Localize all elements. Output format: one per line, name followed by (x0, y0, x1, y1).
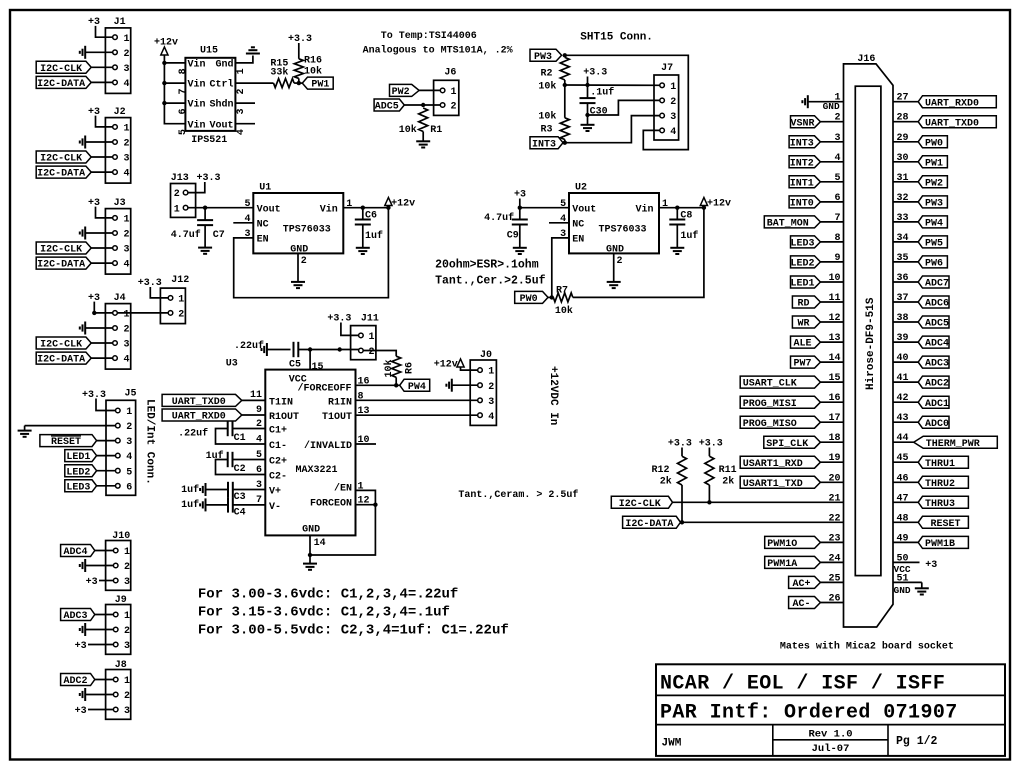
svg-text:LED/Int Conn.: LED/Int Conn. (144, 399, 156, 485)
J16 pin 37 net label ADC6 (893, 293, 949, 310)
svg-text:1: 1 (124, 547, 130, 558)
svg-text:1: 1 (126, 407, 132, 418)
svg-text:10: 10 (828, 273, 840, 284)
svg-text:+12v: +12v (434, 360, 458, 371)
svg-text:1uf: 1uf (181, 484, 199, 496)
regulator U15 IPS521 (178, 46, 247, 146)
svg-text:For 3.00-3.6vdc: C1,2,3,4=.22u: For 3.00-3.6vdc: C1,2,3,4=.22uf (198, 587, 458, 603)
svg-text:2: 2 (178, 310, 184, 321)
svg-text:1: 1 (174, 204, 180, 215)
svg-text:2: 2 (126, 422, 132, 433)
stub U15 Shdn pin 3 (235, 102, 255, 104)
net label ADC4 at J10 (61, 545, 114, 559)
svg-text:2: 2 (451, 102, 457, 113)
connector J8 (106, 660, 131, 719)
pin 14 ground at U3 GND (303, 535, 326, 569)
net label ADC2 at J8 (61, 674, 114, 688)
svg-text:+3: +3 (86, 577, 98, 588)
regulator U1 TPS76033 (244, 182, 352, 255)
svg-text:PWM1O: PWM1O (767, 539, 797, 550)
+3.3 label J5 (82, 390, 116, 411)
svg-text:J9: J9 (115, 595, 127, 606)
J16 pin 34 net label PW5 (893, 233, 947, 250)
svg-text:33k: 33k (270, 67, 288, 79)
svg-text:USART_CLK: USART_CLK (743, 379, 797, 390)
net label PW2 (390, 84, 441, 98)
connector J2 (105, 107, 130, 183)
J16 pin 2 net label VSNR (790, 113, 843, 130)
+3 wire at J9 pin 3 (75, 641, 114, 652)
ground at J2 pin 2 (80, 136, 113, 149)
net label PW1 (302, 77, 333, 89)
svg-text:I2C-DATA: I2C-DATA (37, 79, 85, 90)
svg-text:2: 2 (124, 626, 130, 637)
J16 pin 3 net label INT3 (789, 133, 843, 150)
svg-text:36: 36 (897, 273, 909, 284)
net label ADC3 at J9 (61, 609, 114, 623)
svg-text:SPI_CLK: SPI_CLK (766, 439, 808, 450)
net label I2C-CLK at J2 (36, 151, 113, 165)
svg-text:T1IN: T1IN (269, 397, 293, 408)
svg-text:R3: R3 (541, 125, 553, 136)
wire U15 Ctrl to R15 (235, 82, 273, 84)
svg-text:NCAR / EOL / ISF / ISFF: NCAR / EOL / ISF / ISFF (660, 673, 945, 696)
svg-text:UART_RXD0: UART_RXD0 (925, 98, 979, 109)
svg-text:.22uf: .22uf (178, 428, 208, 440)
net label LED3 (65, 480, 116, 494)
svg-text:26: 26 (828, 594, 840, 605)
capacitor C30 .1uf (580, 85, 615, 125)
ground at U15 Gnd pin (235, 47, 260, 63)
svg-text:I2C-DATA: I2C-DATA (37, 169, 85, 180)
wire INT3 to J7 pin 3 (565, 116, 660, 143)
svg-text:ADC4: ADC4 (925, 339, 949, 350)
svg-text:PW6: PW6 (925, 259, 943, 270)
ground at J10 pin 2 (80, 559, 114, 572)
J16 pin 13 net label ALE (791, 333, 844, 350)
svg-text:42: 42 (897, 393, 909, 404)
J16 pin 27 net label UART_RXD0 (893, 93, 996, 110)
svg-text:ALE: ALE (793, 339, 811, 350)
svg-text:1: 1 (670, 82, 676, 93)
capacitor C2 1uf at U3 pins 5/6 (206, 450, 266, 476)
svg-text:Vin: Vin (635, 203, 653, 215)
+3.3 at SHT15 node (583, 68, 607, 88)
svg-text:8: 8 (358, 391, 364, 402)
J16 pin 33 net label PW4 (893, 213, 947, 230)
J16 pin 48 net label RESET (893, 513, 968, 530)
connector J6 (434, 68, 459, 116)
svg-text:20: 20 (828, 473, 840, 484)
svg-text:PWM1A: PWM1A (767, 559, 797, 570)
J16 pin 9 net label LED2 (790, 253, 843, 270)
svg-text:INT0: INT0 (790, 199, 814, 210)
svg-text:Mates with Mica2 board socket: Mates with Mica2 board socket (780, 641, 954, 653)
svg-text:3: 3 (236, 108, 247, 114)
J16 pin 30 net label PW1 (893, 153, 947, 170)
ground at U2 GND pin 2 (607, 253, 623, 288)
svg-text:J10: J10 (112, 531, 130, 542)
svg-text:R1OUT: R1OUT (269, 412, 299, 423)
connector J13 (171, 173, 196, 217)
svg-text:4: 4 (124, 355, 130, 366)
svg-text:Vout: Vout (572, 204, 596, 215)
svg-text:1: 1 (124, 310, 130, 321)
connector J11 (351, 314, 379, 360)
J16 pin 4 net label INT2 (789, 153, 843, 170)
svg-text:+3: +3 (88, 107, 100, 118)
svg-text:2: 2 (236, 88, 247, 94)
resistor R11 2k pullup I2C-CLK (699, 439, 737, 503)
svg-text:UART_RXD0: UART_RXD0 (172, 412, 226, 423)
svg-text:+3: +3 (88, 17, 100, 28)
svg-text:18: 18 (828, 433, 840, 444)
J16 pin 25 net label AC+ (789, 573, 844, 590)
svg-text:14: 14 (314, 538, 326, 549)
svg-text:AC+: AC+ (792, 579, 810, 590)
capacitor C1 .22uf at U3 pins 2/4 (178, 419, 265, 446)
svg-text:3: 3 (488, 397, 494, 408)
svg-text:1: 1 (178, 295, 184, 306)
net label I2C-DATA at J1 (36, 76, 113, 90)
svg-text:R1IN: R1IN (328, 397, 352, 408)
svg-text:J1: J1 (114, 17, 126, 28)
+12v arrow at U2 (700, 198, 731, 210)
wire R7 to +12v (573, 208, 704, 298)
svg-text:For 3.00-5.5vdc: C2,3,4=1uf:: For 3.00-5.5vdc: C2,3,4=1uf: C1=.22uf (198, 622, 509, 638)
net label LED1 (65, 450, 116, 464)
svg-text:3: 3 (256, 480, 262, 491)
svg-text:10k: 10k (538, 111, 556, 123)
svg-text:7: 7 (256, 495, 262, 506)
+3.3 label J12 (138, 278, 168, 298)
svg-text:U3: U3 (226, 358, 238, 369)
svg-text:4: 4 (488, 412, 494, 423)
svg-text:1: 1 (369, 332, 375, 343)
svg-text:3: 3 (124, 245, 130, 256)
J16 pin 51 GND (893, 573, 929, 596)
svg-text:PW2: PW2 (392, 87, 410, 98)
net label PW0 (515, 291, 548, 303)
svg-text:/EN: /EN (334, 483, 352, 495)
svg-text:LED3: LED3 (66, 482, 90, 493)
ground wire J5 pin 2 (18, 426, 116, 437)
svg-text:21: 21 (828, 493, 840, 504)
svg-text:3: 3 (124, 64, 130, 75)
svg-text:38: 38 (897, 313, 909, 324)
J16 pin 50 VCC +3 (893, 553, 937, 575)
VCC rail with C5 (234, 340, 359, 371)
svg-text:4: 4 (124, 260, 130, 271)
svg-text:4: 4 (670, 127, 676, 138)
svg-text:J3: J3 (114, 198, 126, 209)
svg-text:16: 16 (358, 376, 370, 387)
J16 pin 47 net label THRU3 (893, 493, 968, 510)
svg-text:4: 4 (124, 169, 130, 180)
svg-text:ADC5: ADC5 (925, 319, 949, 330)
svg-text:UART_TXD0: UART_TXD0 (172, 397, 226, 408)
svg-text:9: 9 (256, 405, 262, 416)
capacitor C6 1uf (355, 208, 383, 248)
svg-text:I2C-CLK: I2C-CLK (40, 64, 82, 75)
svg-text:U15: U15 (200, 46, 218, 57)
svg-text:1: 1 (488, 367, 494, 378)
svg-text:PAR Intf: Ordered 071907: PAR Intf: Ordered 071907 (660, 702, 958, 725)
svg-text:2: 2 (124, 230, 130, 241)
J16 pin 36 net label ADC7 (893, 273, 949, 290)
+3 label J1 (88, 17, 113, 37)
J16 pin 40 net label ADC3 (893, 353, 949, 370)
wire U2 Vin to +12v (659, 206, 706, 210)
svg-text:PW1: PW1 (311, 80, 329, 91)
svg-text:14: 14 (828, 353, 840, 364)
svg-text:PW4: PW4 (925, 219, 943, 230)
svg-text:5: 5 (256, 450, 262, 461)
svg-text:1uf: 1uf (181, 499, 199, 511)
svg-text:7: 7 (178, 88, 189, 94)
wire J7 pin 2 to C30 ground (588, 100, 660, 115)
svg-text:+3: +3 (88, 198, 100, 209)
+3 wire at J8 pin 3 (75, 706, 114, 717)
IC U3 MAX3221 (226, 358, 356, 535)
J16 pin 15 net label USART_CLK (740, 373, 843, 390)
svg-text:15: 15 (828, 373, 840, 384)
pin 12 wire U3 FORCEON to ground loop (310, 496, 378, 555)
svg-text:2k: 2k (660, 476, 672, 488)
svg-text:Hirose-DF9-51S: Hirose-DF9-51S (865, 297, 877, 390)
svg-text:U2: U2 (575, 182, 587, 193)
svg-text:22: 22 (828, 513, 840, 524)
svg-text:EN: EN (257, 235, 269, 246)
svg-text:TPS76033: TPS76033 (599, 225, 647, 236)
svg-text:LED2: LED2 (66, 467, 90, 478)
svg-text:10k: 10k (538, 81, 556, 93)
svg-text:.1uf: .1uf (590, 87, 614, 99)
svg-text:I2C-DATA: I2C-DATA (625, 519, 673, 530)
svg-text:LED2: LED2 (790, 259, 814, 270)
svg-text:I2C-CLK: I2C-CLK (40, 154, 82, 165)
svg-text:T1OUT: T1OUT (322, 412, 352, 423)
svg-text:10k: 10k (304, 65, 322, 77)
wire J4 pin 1 to J12 pin 2 (117, 312, 168, 314)
svg-text:4: 4 (126, 452, 132, 463)
svg-text:TPS76033: TPS76033 (283, 225, 331, 236)
svg-text:23: 23 (828, 533, 840, 544)
svg-text:C2: C2 (234, 464, 246, 475)
svg-text:R2: R2 (541, 68, 553, 79)
stub U2 NC pin 4 (549, 222, 569, 224)
ground at J3 pin 2 (80, 227, 113, 240)
svg-text:C7: C7 (213, 230, 225, 241)
J16 pin 46 net label THRU2 (893, 473, 968, 490)
svg-text:5: 5 (244, 199, 250, 210)
svg-text:32: 32 (897, 193, 909, 204)
svg-text:MAX3221: MAX3221 (295, 465, 337, 476)
svg-text:30: 30 (897, 153, 909, 164)
svg-text:PROG_MISI: PROG_MISI (743, 399, 797, 410)
J16 pin 32 net label PW3 (893, 193, 947, 210)
+12v arrow at J0 pin 1 (434, 359, 478, 371)
svg-text:1uf: 1uf (206, 450, 224, 462)
ground at U1 GND pin 2 (291, 253, 307, 288)
svg-text:USART1_TXD: USART1_TXD (743, 479, 803, 490)
svg-text:I2C-DATA: I2C-DATA (37, 260, 85, 271)
capacitor C3 1uf at U3 pin 3 (181, 480, 265, 503)
svg-text:C2-: C2- (269, 472, 287, 483)
J16 pin 31 net label PW2 (893, 173, 947, 190)
svg-text:2: 2 (124, 325, 130, 336)
svg-text:VSNR: VSNR (790, 118, 814, 129)
svg-text:+12v: +12v (391, 198, 415, 209)
svg-text:1: 1 (124, 611, 130, 622)
svg-text:J2: J2 (114, 107, 126, 118)
svg-text:SHT15 Conn.: SHT15 Conn. (580, 32, 653, 44)
pin 8 wire U3 R1IN to J0 pin 3 (356, 391, 478, 402)
svg-text:ADC3: ADC3 (63, 611, 87, 622)
+3.3 at J13 pin 2 (188, 173, 221, 193)
svg-text:Vin: Vin (188, 119, 206, 131)
svg-text:+3.3: +3.3 (197, 173, 221, 184)
svg-text:11: 11 (828, 293, 840, 304)
svg-text:LED3: LED3 (790, 239, 814, 250)
svg-text:2: 2 (488, 382, 494, 393)
svg-text:2: 2 (670, 97, 676, 108)
svg-text:INT2: INT2 (790, 158, 814, 169)
svg-text:V+: V+ (269, 487, 281, 498)
svg-text:2k: 2k (722, 476, 734, 488)
resistor R16 10k (288, 34, 322, 83)
svg-text:ADC0: ADC0 (925, 419, 949, 430)
J16 pin 38 net label ADC5 (893, 313, 949, 330)
J16 pin 49 net label PWM1B (893, 533, 968, 550)
capacitor C9 4.7uf (484, 208, 528, 248)
svg-text:Jul-07: Jul-07 (812, 743, 850, 755)
svg-text:C1: C1 (234, 433, 246, 444)
svg-text:GND: GND (302, 525, 320, 536)
svg-text:12: 12 (828, 313, 840, 324)
svg-text:EN: EN (572, 235, 584, 246)
connector J16 inner body Hirose-DF9-51S (855, 86, 881, 575)
svg-text:PROG_MISO: PROG_MISO (743, 419, 797, 430)
+3 label J4 (88, 293, 113, 315)
+3.3 at J11 pin 1 (327, 314, 358, 336)
svg-text:R11: R11 (719, 465, 737, 476)
svg-text:2: 2 (301, 256, 307, 267)
svg-text:2: 2 (834, 113, 840, 124)
net label RESET at J5 (40, 435, 116, 449)
J16 pin 14 net label PW7 (791, 353, 844, 370)
svg-text:Rev 1.0: Rev 1.0 (808, 729, 852, 741)
svg-text:10k: 10k (555, 305, 573, 317)
J16 pin 42 net label ADC1 (893, 393, 949, 410)
svg-text:C3: C3 (234, 492, 246, 503)
svg-text:46: 46 (897, 473, 909, 484)
svg-text:C9: C9 (507, 231, 519, 242)
J16 pin 39 net label ADC4 (893, 333, 949, 350)
net label INT3 (530, 137, 567, 151)
ground below R1 (416, 140, 430, 142)
connector J5 (106, 389, 137, 496)
svg-text:PWM1B: PWM1B (925, 539, 955, 550)
connector J16 outline (844, 54, 894, 627)
svg-text:20ohm>ESR>.1ohm: 20ohm>ESR>.1ohm (435, 258, 539, 271)
svg-text:J11: J11 (361, 314, 379, 325)
J16 pin 7 net label BAT_MON (764, 213, 843, 230)
svg-text:28: 28 (897, 113, 909, 124)
svg-text:51: 51 (897, 573, 909, 584)
svg-text:2: 2 (256, 419, 262, 430)
svg-text:+3: +3 (925, 560, 937, 571)
net label LED2 (65, 465, 116, 479)
ground at J1 pin 2 (80, 46, 113, 59)
J16 pin 44 net label THERM_PWR (893, 433, 997, 450)
svg-text:RD: RD (797, 299, 809, 310)
svg-text:24: 24 (828, 553, 840, 564)
svg-text:2: 2 (124, 49, 130, 60)
net label PW4 (400, 379, 430, 391)
svg-text:J7: J7 (661, 63, 673, 74)
svg-text:2: 2 (369, 347, 375, 358)
svg-text:Tant.,Cer.>2.5uf: Tant.,Cer.>2.5uf (435, 274, 546, 287)
J16 pin 18 net label SPI_CLK (764, 433, 844, 450)
svg-text:ADC1: ADC1 (925, 399, 949, 410)
svg-text:4.7uf: 4.7uf (171, 229, 201, 241)
J16 pin 43 net label ADC0 (893, 413, 949, 430)
svg-text:31: 31 (897, 173, 909, 184)
svg-text:3: 3 (670, 112, 676, 123)
net label I2C-DATA at J4 (36, 352, 113, 366)
svg-text:1: 1 (124, 124, 130, 135)
svg-text:8: 8 (178, 68, 189, 74)
svg-text:PW3: PW3 (925, 199, 943, 210)
svg-text:3: 3 (124, 340, 130, 351)
J16 pin 20 net label USART1_TXD (740, 473, 843, 490)
svg-text:29: 29 (897, 133, 909, 144)
svg-text:Vout: Vout (209, 120, 233, 131)
J16 pin 45 net label THRU1 (893, 453, 968, 470)
svg-text:INT3: INT3 (532, 139, 556, 150)
svg-text:C8: C8 (680, 210, 692, 221)
capacitor C8 1uf (669, 208, 698, 248)
svg-text:4: 4 (236, 129, 247, 135)
wire J13 pin 1 to U1 Vout (188, 206, 253, 210)
ground below C9 (513, 247, 527, 249)
svg-text:J12: J12 (171, 275, 189, 286)
svg-text:39: 39 (897, 333, 909, 344)
J16 pin 6 net label INT0 (789, 193, 843, 210)
J16 pin 23 net label PWM1O (765, 533, 844, 550)
svg-text:WR: WR (797, 319, 809, 330)
J16 pin 22 I2C-DATA (623, 513, 844, 530)
svg-text:THRU3: THRU3 (925, 499, 955, 510)
svg-text:ADC5: ADC5 (375, 102, 399, 113)
svg-text:NC: NC (572, 219, 584, 230)
svg-text:Vin: Vin (188, 99, 206, 111)
svg-text:6: 6 (834, 193, 840, 204)
svg-text:ADC7: ADC7 (925, 279, 949, 290)
regulator U2 TPS76033 (560, 182, 668, 255)
svg-text:+12VDC In: +12VDC In (547, 366, 559, 425)
J16 pin 16 net label PROG_MISI (740, 393, 843, 410)
svg-text:R16: R16 (304, 56, 322, 67)
svg-text:For 3.15-3.6vdc: C1,2,3,4=.1uf: For 3.15-3.6vdc: C1,2,3,4=.1uf (198, 604, 450, 620)
J16 pin 12 net label WR (792, 313, 843, 330)
svg-text:7: 7 (834, 213, 840, 224)
svg-text:+3.3: +3.3 (327, 314, 351, 325)
svg-text:1uf: 1uf (680, 230, 698, 242)
svg-text:Vout: Vout (257, 204, 281, 215)
pin 15 stub U3 VCC (310, 350, 323, 374)
